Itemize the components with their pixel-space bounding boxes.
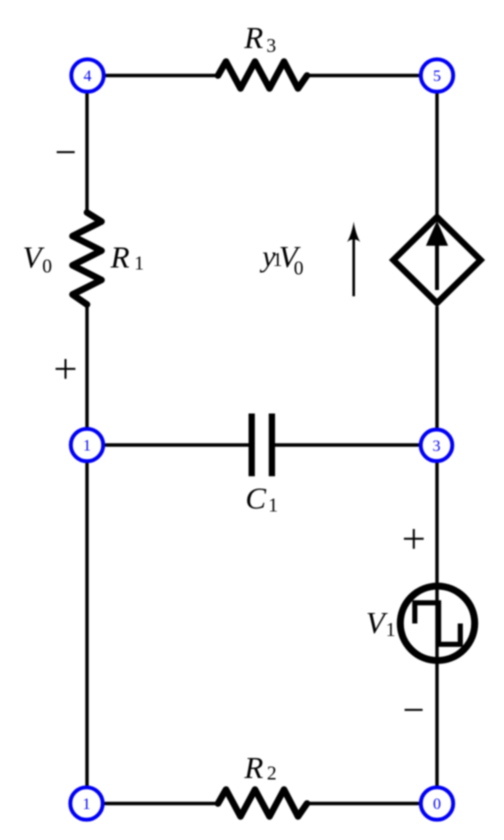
svg-text:1: 1 (268, 496, 278, 517)
node 0 (421, 787, 453, 819)
polarity label minus (V1) (405, 709, 423, 711)
svg-text:3: 3 (433, 438, 441, 455)
svg-text:3: 3 (266, 36, 276, 57)
wire node4 to R1 (left upper vertical) (85, 92, 88, 214)
dependent current source G1 (diamond with arrow) (393, 217, 480, 303)
wire node5 to current source (right upper vertical) (435, 92, 438, 215)
capacitor C1 (252, 414, 272, 477)
svg-text:R: R (243, 750, 263, 785)
wire node1-bottom to R2 (103, 802, 218, 805)
voltage source V1 (circle with square-wave) (400, 586, 474, 660)
polarity label plus (V0) (56, 359, 76, 379)
resistor R3 (218, 62, 307, 89)
svg-text:1: 1 (134, 253, 144, 274)
node 5 (421, 59, 453, 91)
svg-text:C: C (245, 480, 266, 515)
wire C1 to node3 (275, 443, 421, 446)
value label R2 (243, 750, 276, 785)
wire R2 to node0 (307, 802, 421, 805)
value label V1 (366, 605, 396, 641)
node 4 (71, 59, 103, 91)
svg-text:5: 5 (433, 68, 441, 85)
svg-text:V: V (23, 240, 45, 275)
polarity label plus (V1) (404, 529, 424, 549)
polarity label minus (V0) (57, 151, 75, 153)
resistor R2 (218, 790, 307, 817)
annotation arrow for y1V0 (347, 222, 360, 297)
svg-text:1: 1 (83, 438, 91, 455)
svg-text:0: 0 (433, 796, 441, 813)
wire node1 to C1 (104, 443, 250, 446)
value label R1 (110, 239, 144, 274)
wire node4 to R3 (top left horizontal) (104, 74, 219, 77)
wire R3 to node5 (top right horizontal) (307, 74, 421, 77)
wire current source to node3 (right vertical) (435, 307, 438, 430)
value label C1 (245, 480, 278, 516)
resistor R1 (73, 213, 102, 305)
svg-text:1: 1 (386, 620, 396, 641)
value label y1V0 (259, 239, 303, 280)
svg-text:1: 1 (83, 796, 91, 813)
svg-text:R: R (110, 239, 130, 274)
value label V0 (23, 240, 52, 278)
svg-text:4: 4 (84, 68, 92, 85)
node 1 (bottom left) (70, 787, 102, 819)
wire node3 to node0 (through source V1) (435, 462, 438, 788)
svg-text:0: 0 (294, 258, 304, 279)
svg-text:0: 0 (42, 257, 52, 278)
svg-text:R: R (243, 20, 263, 55)
node 1 (middle left) (71, 429, 103, 461)
wire node1 to node1-bottom (left lower vertical) (85, 462, 88, 788)
svg-text:V: V (366, 605, 388, 640)
node 3 (421, 430, 453, 462)
value label R3 (243, 20, 276, 57)
wire R1 to node1 (left mid vertical) (85, 305, 88, 430)
svg-text:2: 2 (267, 764, 277, 785)
